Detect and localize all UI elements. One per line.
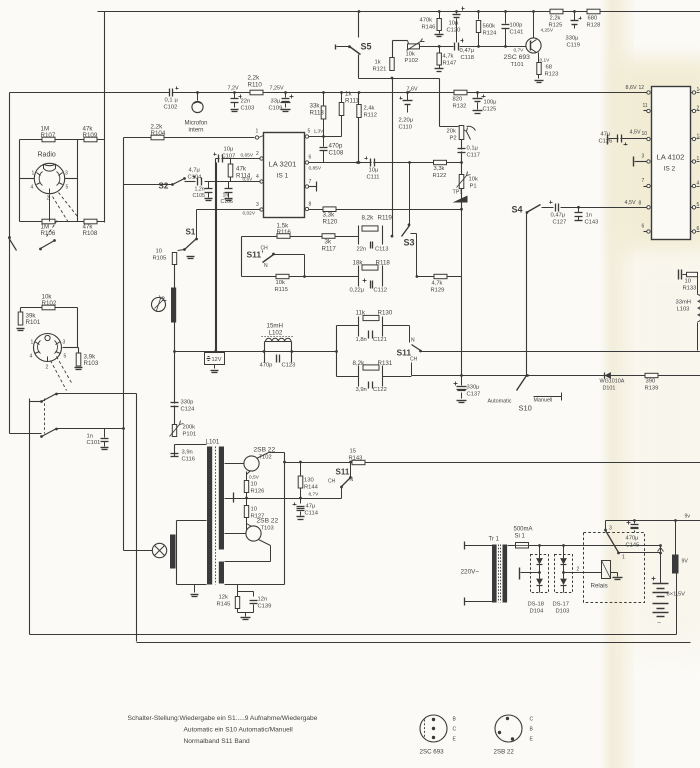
svg-text:R121: R121	[373, 67, 387, 73]
svg-text:Relais: Relais	[591, 583, 608, 590]
svg-text:560k: 560k	[483, 24, 496, 30]
svg-text:S3: S3	[404, 238, 415, 248]
svg-text:R119: R119	[378, 215, 393, 222]
svg-text:2SB 22: 2SB 22	[257, 518, 279, 525]
svg-text:3,9n: 3,9n	[182, 450, 193, 456]
svg-text:33μ: 33μ	[271, 99, 281, 105]
svg-text:R113: R113	[310, 110, 325, 117]
svg-text:10k: 10k	[276, 280, 285, 286]
svg-text:0,47μ: 0,47μ	[460, 48, 475, 54]
svg-text:68: 68	[546, 65, 552, 71]
svg-text:C126: C126	[599, 139, 613, 145]
svg-text:R110: R110	[248, 82, 263, 89]
svg-text:R131: R131	[378, 360, 393, 367]
svg-text:4: 4	[256, 174, 259, 180]
svg-text:R101: R101	[26, 319, 41, 326]
svg-text:22n: 22n	[241, 99, 251, 105]
svg-text:P102: P102	[405, 58, 419, 64]
svg-text:130: 130	[304, 478, 314, 484]
svg-text:WG1010A: WG1010A	[600, 379, 625, 385]
svg-text:R117: R117	[322, 246, 337, 253]
svg-text:680: 680	[588, 16, 598, 22]
svg-text:R106: R106	[41, 230, 56, 237]
svg-text:0,85V: 0,85V	[309, 166, 322, 172]
svg-text:CH: CH	[261, 246, 269, 252]
svg-text:0,7V: 0,7V	[514, 48, 525, 54]
svg-text:CH: CH	[328, 479, 336, 485]
svg-text:C108: C108	[329, 150, 344, 157]
svg-text:P2: P2	[450, 136, 457, 142]
svg-text:S11: S11	[336, 468, 350, 477]
svg-text:C: C	[453, 727, 457, 733]
svg-text:LA 4102: LA 4102	[657, 153, 685, 162]
svg-text:C125: C125	[483, 107, 497, 113]
svg-text:6: 6	[697, 226, 700, 232]
svg-text:R133: R133	[683, 286, 697, 292]
svg-text:C112: C112	[374, 288, 387, 294]
svg-text:500mA: 500mA	[514, 527, 533, 533]
svg-text:R112: R112	[364, 113, 377, 119]
svg-text:IS 2: IS 2	[664, 166, 676, 173]
svg-text:R147: R147	[443, 61, 457, 67]
svg-text:0,65V: 0,65V	[241, 153, 254, 159]
svg-text:10k: 10k	[406, 52, 415, 58]
svg-text:4,7k: 4,7k	[443, 54, 454, 60]
svg-text:C102: C102	[164, 105, 178, 111]
svg-text:220V~: 220V~	[461, 569, 480, 576]
svg-text:3: 3	[65, 171, 68, 177]
svg-text:100μ: 100μ	[484, 100, 497, 106]
svg-text:4,7k: 4,7k	[432, 281, 443, 287]
svg-text:9v: 9v	[685, 514, 691, 520]
svg-text:10: 10	[156, 249, 162, 255]
svg-text:R123: R123	[545, 72, 559, 78]
svg-text:R108: R108	[83, 230, 98, 237]
svg-text:2SB 22: 2SB 22	[494, 749, 515, 756]
svg-text:12k: 12k	[219, 595, 228, 601]
svg-text:47k: 47k	[236, 166, 247, 173]
svg-text:1k: 1k	[345, 91, 352, 98]
svg-text:11k: 11k	[356, 310, 366, 317]
svg-text:DS-18: DS-18	[528, 602, 544, 608]
svg-text:18k: 18k	[353, 260, 364, 267]
svg-text:1,8n: 1,8n	[356, 337, 367, 343]
svg-text:14: 14	[697, 87, 700, 93]
svg-text:L103: L103	[677, 307, 690, 313]
svg-text:15: 15	[350, 449, 356, 455]
svg-text:12V: 12V	[212, 357, 222, 363]
svg-text:0,1: 0,1	[165, 98, 173, 104]
svg-text:9V: 9V	[682, 559, 689, 565]
svg-text:11: 11	[643, 103, 648, 109]
svg-text:470p: 470p	[329, 143, 343, 150]
svg-text:R111: R111	[345, 98, 359, 105]
svg-text:2,4k: 2,4k	[364, 106, 375, 112]
svg-text:1n: 1n	[586, 213, 592, 219]
svg-text:2,2k: 2,2k	[550, 16, 561, 22]
svg-text:N: N	[264, 263, 268, 269]
svg-text:DS-17: DS-17	[553, 602, 569, 608]
svg-text:1n: 1n	[223, 193, 229, 199]
svg-text:10: 10	[685, 279, 691, 285]
svg-text:R103: R103	[84, 360, 99, 367]
svg-text:C106: C106	[221, 199, 234, 205]
svg-text:22n: 22n	[357, 247, 367, 253]
svg-text:R116: R116	[277, 229, 292, 236]
svg-text:0,22μ: 0,22μ	[350, 288, 365, 294]
svg-text:C127: C127	[553, 220, 567, 226]
svg-text:3: 3	[63, 340, 66, 346]
svg-text:R122: R122	[433, 173, 447, 179]
svg-text:R104: R104	[151, 130, 166, 137]
svg-text:L102: L102	[269, 330, 283, 337]
svg-text:R130: R130	[378, 310, 393, 317]
svg-text:C111: C111	[367, 175, 380, 181]
svg-text:10μ: 10μ	[224, 147, 234, 153]
svg-text:C113: C113	[375, 247, 388, 253]
svg-text:47μ: 47μ	[306, 504, 316, 510]
svg-text:R128: R128	[587, 23, 601, 29]
svg-text:S4: S4	[512, 205, 523, 215]
svg-text:C110: C110	[399, 125, 412, 131]
svg-text:20k: 20k	[447, 129, 456, 135]
svg-text:T101: T101	[511, 62, 524, 68]
svg-text:S11: S11	[247, 250, 262, 260]
svg-text:S2: S2	[159, 182, 169, 191]
svg-text:12: 12	[639, 85, 645, 91]
svg-text:R139: R139	[645, 386, 659, 392]
svg-text:Radio: Radio	[38, 152, 56, 159]
svg-text:0,5V: 0,5V	[249, 475, 260, 481]
svg-text:3,3k: 3,3k	[323, 212, 336, 219]
svg-text:Si 1: Si 1	[515, 534, 526, 540]
svg-text:330μ: 330μ	[467, 385, 480, 391]
svg-text:2: 2	[577, 567, 580, 573]
svg-text:5: 5	[308, 129, 311, 135]
svg-text:3,9n: 3,9n	[356, 387, 367, 393]
svg-text:10: 10	[251, 482, 257, 488]
svg-text:Tr 1: Tr 1	[489, 537, 500, 543]
svg-text:3k: 3k	[325, 239, 332, 246]
svg-text:C114: C114	[305, 511, 319, 517]
svg-text:3: 3	[609, 526, 612, 532]
svg-text:D101: D101	[603, 386, 616, 392]
svg-text:47μ: 47μ	[601, 132, 611, 138]
svg-text:C101: C101	[87, 440, 101, 446]
svg-text:4,5V: 4,5V	[630, 130, 641, 136]
svg-text:C121: C121	[373, 337, 387, 343]
svg-text:820: 820	[453, 97, 463, 103]
svg-text:C137: C137	[467, 392, 481, 398]
svg-text:1,3V: 1,3V	[314, 129, 325, 135]
svg-text:4: 4	[697, 181, 700, 187]
svg-text:1k: 1k	[375, 60, 381, 66]
svg-text:5: 5	[66, 185, 69, 191]
svg-text:C143: C143	[585, 220, 599, 226]
svg-text:S10: S10	[519, 404, 532, 413]
svg-text:C124: C124	[181, 407, 196, 413]
svg-text:12n: 12n	[258, 597, 268, 603]
svg-text:4,5V: 4,5V	[625, 200, 636, 206]
svg-text:S5: S5	[361, 42, 372, 52]
svg-text:15mH: 15mH	[267, 323, 284, 330]
svg-text:4: 4	[31, 185, 34, 191]
svg-text:C103: C103	[241, 106, 255, 112]
svg-text:6×1,5V: 6×1,5V	[667, 592, 686, 598]
svg-text:CH: CH	[410, 357, 418, 363]
svg-text:1n: 1n	[87, 434, 93, 440]
svg-text:R126: R126	[251, 489, 265, 495]
svg-text:1: 1	[622, 555, 625, 561]
svg-text:Automatic: Automatic	[488, 399, 512, 405]
svg-text:C145: C145	[626, 543, 640, 549]
svg-text:R124: R124	[483, 31, 498, 37]
svg-text:2,2k: 2,2k	[248, 75, 261, 82]
svg-text:L101: L101	[206, 439, 220, 446]
svg-text:C104: C104	[188, 175, 203, 181]
svg-text:R107: R107	[41, 132, 56, 139]
svg-text:C109: C109	[269, 106, 283, 112]
svg-text:100p: 100p	[510, 23, 523, 29]
svg-text:1: 1	[32, 171, 35, 177]
svg-text:4,7μ: 4,7μ	[189, 168, 200, 174]
svg-text:T102: T102	[259, 455, 272, 461]
svg-text:N: N	[411, 338, 415, 344]
svg-text:200k: 200k	[183, 425, 196, 431]
svg-text:0,02V: 0,02V	[243, 211, 256, 217]
svg-text:470μ: 470μ	[626, 536, 639, 542]
svg-text:2SC 693: 2SC 693	[504, 54, 531, 61]
svg-text:R115: R115	[275, 287, 288, 293]
svg-text:6: 6	[309, 155, 312, 161]
svg-text:7,2V: 7,2V	[228, 86, 239, 92]
svg-text:C119: C119	[567, 43, 580, 49]
svg-text:0,47μ: 0,47μ	[551, 213, 566, 219]
svg-text:10k: 10k	[469, 177, 478, 183]
svg-text:Microfon: Microfon	[185, 121, 208, 127]
svg-text:10μ: 10μ	[449, 21, 459, 27]
svg-text:33k: 33k	[310, 103, 321, 110]
svg-text:T103: T103	[261, 526, 274, 532]
svg-text:2: 2	[46, 365, 49, 371]
svg-text:10: 10	[642, 131, 648, 137]
svg-text:470k: 470k	[420, 18, 433, 24]
svg-text:2,20μ: 2,20μ	[399, 118, 414, 124]
svg-text:7: 7	[309, 179, 312, 185]
svg-text:S1: S1	[186, 228, 196, 237]
svg-text:D104: D104	[530, 609, 545, 615]
svg-text:470p: 470p	[260, 363, 273, 369]
svg-text:330μ: 330μ	[566, 36, 579, 42]
svg-text:8,6V: 8,6V	[626, 85, 637, 91]
svg-text:Automatic ein S10: Automatic ein S10 Automatic/Manuell	[184, 727, 294, 734]
svg-text:5: 5	[697, 202, 700, 208]
svg-text:0,1μ: 0,1μ	[467, 146, 478, 152]
svg-text:R109: R109	[83, 132, 98, 139]
svg-text:10μ: 10μ	[369, 168, 379, 174]
svg-text:4: 4	[30, 354, 33, 360]
svg-text:R105: R105	[153, 256, 167, 262]
svg-text:LA 3201: LA 3201	[269, 160, 297, 169]
svg-text:R118: R118	[376, 260, 391, 267]
svg-text:R129: R129	[431, 288, 445, 294]
svg-text:330p: 330p	[181, 400, 194, 406]
svg-text:Normalband S11 Ba: Normalband S11 Band	[184, 738, 251, 745]
svg-text:8,2k: 8,2k	[353, 360, 366, 367]
svg-text:R120: R120	[323, 219, 338, 226]
svg-text:8: 8	[639, 201, 642, 207]
svg-text:R145: R145	[217, 602, 231, 608]
svg-text:D103: D103	[556, 609, 570, 615]
svg-text:C118: C118	[461, 55, 474, 61]
svg-text:Manuell: Manuell	[534, 398, 553, 404]
svg-text:C116: C116	[182, 457, 195, 463]
svg-text:C: C	[530, 717, 534, 723]
svg-text:Schalter‐Stellung:Wiedergabe: Schalter‐Stellung:Wiedergabe ein S1.....…	[128, 715, 318, 722]
svg-text:R125: R125	[549, 23, 563, 29]
svg-text:1: 1	[697, 156, 700, 162]
svg-text:2SC 693: 2SC 693	[420, 749, 445, 756]
svg-text:R132: R132	[453, 104, 467, 110]
svg-text:C139: C139	[258, 604, 272, 610]
svg-text:C117: C117	[467, 153, 480, 159]
svg-text:1: 1	[31, 340, 34, 346]
svg-text:1,2n: 1,2n	[195, 187, 205, 193]
svg-text:8,2k: 8,2k	[362, 215, 375, 222]
svg-text:IS 1: IS 1	[277, 173, 289, 180]
svg-text:8: 8	[309, 202, 312, 208]
svg-text:3,3k: 3,3k	[434, 166, 445, 172]
svg-text:8,7V: 8,7V	[309, 492, 320, 498]
svg-text:C122: C122	[373, 387, 387, 393]
svg-text:TP1: TP1	[453, 190, 463, 196]
svg-text:390: 390	[646, 379, 656, 385]
svg-text:7: 7	[642, 178, 645, 184]
svg-text:C105: C105	[193, 193, 206, 199]
svg-text:C107: C107	[222, 154, 236, 160]
svg-text:10: 10	[251, 507, 257, 513]
svg-text:3: 3	[642, 154, 645, 160]
svg-text:1: 1	[256, 129, 259, 135]
svg-text:2: 2	[697, 106, 700, 112]
svg-text:intern: intern	[189, 128, 204, 134]
svg-text:R144: R144	[304, 485, 319, 491]
svg-text:C141: C141	[510, 30, 524, 36]
svg-text:6: 6	[642, 224, 645, 230]
svg-text:2: 2	[256, 151, 259, 157]
svg-text:7,25V: 7,25V	[270, 86, 284, 92]
svg-text:R146: R146	[422, 25, 436, 31]
svg-text:C120: C120	[447, 28, 461, 34]
svg-text:P101: P101	[183, 432, 197, 438]
svg-text:μ: μ	[175, 98, 178, 104]
svg-text:5: 5	[64, 354, 67, 360]
svg-text:C123: C123	[282, 363, 296, 369]
svg-text:P1: P1	[470, 184, 477, 190]
svg-text:33mH: 33mH	[676, 300, 691, 306]
svg-text:3: 3	[256, 202, 259, 208]
svg-text:13: 13	[697, 134, 700, 140]
